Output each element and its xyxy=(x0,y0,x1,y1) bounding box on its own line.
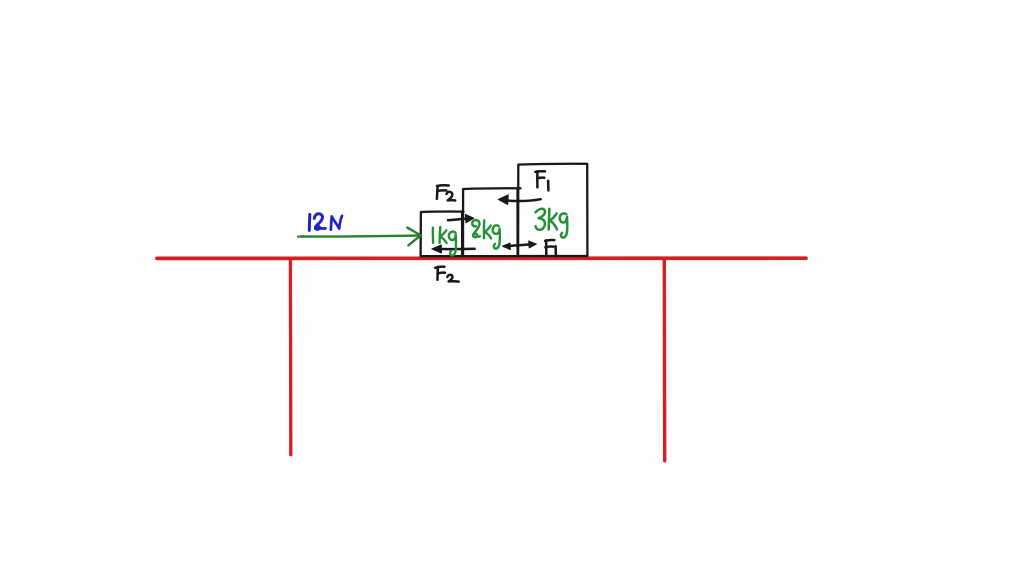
arrow F2 on block1 from block2 (points left) xyxy=(432,245,475,253)
1kg label (green, in block1) xyxy=(433,227,456,256)
block 2 (2kg box) xyxy=(463,188,521,256)
right support line (red vertical) xyxy=(663,258,667,461)
F2 label (below block1, under ground) xyxy=(435,267,458,282)
12N force arrow (green) xyxy=(298,235,304,237)
block 1 (1kg box) xyxy=(421,212,464,257)
left support line (red vertical) xyxy=(289,258,293,455)
F1 label (bottom right of double arrow) xyxy=(545,240,556,257)
F1 label (top, in block3) xyxy=(535,171,548,190)
3kg label (green, in block3) xyxy=(536,209,568,238)
2kg label (green, in block2) xyxy=(472,220,500,249)
12N label (blue) xyxy=(309,214,342,231)
double arrow F1 pair between block2 and block3 xyxy=(502,241,536,250)
arrow F2 on block2 from block1 (points right) xyxy=(448,214,474,222)
arrow F1 on block2 from block3 (points left) xyxy=(498,195,540,205)
ground line (red horizontal surface) xyxy=(157,256,806,260)
F2 label (top, on block2) xyxy=(437,185,455,200)
block 3 (3kg box) xyxy=(518,164,587,256)
